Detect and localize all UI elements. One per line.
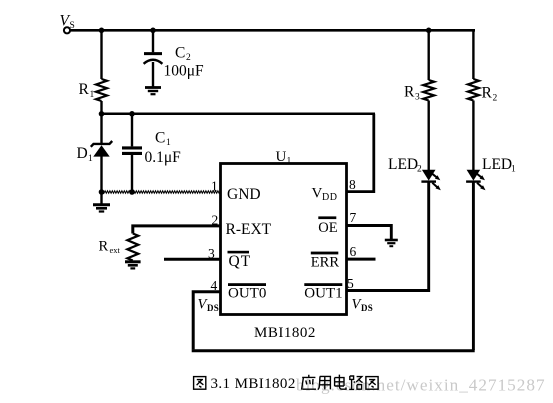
label VS (60, 13, 75, 31)
capacitor C1 (122, 148, 142, 154)
label D1 (77, 145, 94, 164)
label LED2 (388, 156, 422, 175)
junction node rail / C1 (129, 111, 135, 117)
svg-text:ext: ext (110, 245, 121, 255)
diode D1 zener (91, 141, 112, 157)
caption: CJK glyph ying (302, 375, 316, 390)
junction GND net / C1 (129, 189, 135, 195)
wire pin7 OE to ground (346, 226, 391, 240)
svg-text:LED: LED (482, 156, 512, 173)
pin label QT (active low) (228, 251, 252, 270)
label R2 (482, 85, 498, 104)
ground (pin7 OE) (385, 240, 398, 246)
pin label OUT1 (active low) (304, 283, 342, 301)
pin label OUT0 (active low) (228, 283, 266, 301)
pin label OE (active low) (318, 216, 337, 236)
svg-text:C: C (155, 130, 165, 147)
svg-text:R: R (404, 84, 415, 101)
svg-text:R: R (79, 81, 90, 98)
svg-text:2: 2 (493, 94, 498, 104)
junction node rail / D1 (99, 111, 105, 117)
svg-text:1: 1 (211, 179, 218, 194)
svg-text:R-EXT: R-EXT (226, 221, 272, 238)
caption: CJK glyph dian (335, 375, 346, 390)
svg-text:U: U (276, 149, 287, 165)
svg-text:1: 1 (166, 138, 171, 148)
wire C1 bottom lead (131, 155, 133, 192)
svg-text:1: 1 (90, 90, 95, 100)
svg-text:DS: DS (207, 303, 219, 313)
svg-text:1: 1 (88, 154, 93, 164)
node VS terminal (64, 27, 70, 33)
svg-text:1: 1 (287, 157, 292, 167)
wire pin4 OUT0 to bottom rail (193, 292, 220, 350)
svg-text:0.1μF: 0.1μF (145, 149, 182, 166)
label VDS (left) (198, 297, 220, 314)
wire C2 bottom lead (152, 62, 154, 87)
svg-text:GND: GND (227, 186, 261, 203)
svg-text:100μF: 100μF (164, 63, 205, 80)
svg-text:2: 2 (417, 165, 422, 175)
svg-text:MBI1802: MBI1802 (254, 325, 316, 341)
svg-text:DD: DD (322, 192, 337, 203)
svg-text:OUT1: OUT1 (304, 286, 342, 302)
junction top rail / R1 (99, 28, 105, 34)
LED LED2 (421, 170, 440, 191)
svg-text:V: V (312, 186, 323, 202)
junction GND net / D1 (99, 189, 105, 195)
svg-text:3: 3 (415, 93, 420, 103)
svg-text:3.1 MBI1802: 3.1 MBI1802 (211, 376, 296, 392)
wire R2 branch upper (472, 29, 474, 79)
caption: CJK glyph tu (1st) (194, 377, 206, 390)
wire R3 to LED2 (428, 101, 430, 171)
wire D1 bottom lead (100, 156, 102, 204)
resistor R3 (423, 80, 434, 101)
ground (Rext) (125, 262, 141, 269)
wire R1 bottom lead (100, 101, 102, 114)
wire internal VDD node rail (100, 113, 375, 116)
pin label ERR (active low) (311, 252, 340, 271)
wire bottom rail (192, 349, 475, 352)
pin label VDD (312, 186, 338, 204)
capacitor C2 (144, 54, 163, 64)
svg-text:QT: QT (229, 253, 252, 270)
svg-text:5: 5 (347, 276, 354, 291)
svg-text:1: 1 (511, 165, 516, 175)
caption: CJK glyph yong (318, 376, 331, 389)
ground (D1) (93, 205, 110, 212)
svg-text:C: C (175, 45, 185, 62)
wire pin8 VDD feed (346, 114, 374, 192)
resistor Rext (127, 234, 138, 261)
svg-text:8: 8 (349, 177, 356, 192)
ground (C2) (145, 88, 161, 95)
LED LED1 (466, 170, 485, 191)
IC U1 box MBI1802 (221, 164, 347, 315)
wire top supply rail (71, 29, 475, 32)
junction top rail / R3 (426, 28, 432, 34)
label C2 (175, 45, 191, 64)
caption: CJK glyph tu (2nd) (366, 377, 378, 390)
svg-text:LED: LED (388, 156, 418, 173)
svg-text:7: 7 (350, 210, 357, 225)
label Rext (99, 239, 121, 256)
wire R2 to LED1 (472, 101, 474, 171)
label VDS (right) (352, 297, 374, 314)
resistor R1 (96, 79, 107, 101)
wire R3 branch upper (428, 30, 430, 80)
wire pin5 OUT1 to LED2 (346, 182, 429, 291)
label LED1 (482, 156, 516, 175)
wire pin1 GND net (dotted) (102, 191, 221, 193)
svg-text:DS: DS (361, 303, 373, 313)
label C1 (155, 130, 171, 149)
svg-text:R: R (99, 239, 109, 255)
wire D1 top lead (100, 114, 102, 143)
wire C1 top lead (131, 114, 133, 147)
svg-text:6: 6 (350, 244, 357, 259)
capacitor C2 top lead (152, 30, 154, 52)
resistor R2 (468, 79, 479, 101)
svg-text:2: 2 (186, 53, 191, 63)
label R1 (79, 81, 95, 100)
svg-text:R: R (482, 85, 493, 102)
caption: CJK glyph lu (349, 376, 362, 389)
svg-text:D: D (77, 145, 88, 162)
wire pin2 to Rext (133, 226, 221, 234)
label R3 (404, 84, 420, 103)
svg-text:blog.csdn.net/weixin_42715287: blog.csdn.net/weixin_42715287 (296, 376, 546, 395)
wire pin6 stub (346, 258, 376, 261)
svg-text:OUT0: OUT0 (228, 286, 266, 302)
junction top rail / C2 (150, 28, 156, 34)
wire pin3 stub (164, 258, 221, 261)
wire R1 top lead (100, 30, 102, 79)
wire LED1 cathode to bottom rail (472, 182, 475, 350)
svg-text:ERR: ERR (311, 255, 340, 271)
svg-text:OE: OE (318, 220, 337, 236)
label U1 (276, 149, 292, 167)
